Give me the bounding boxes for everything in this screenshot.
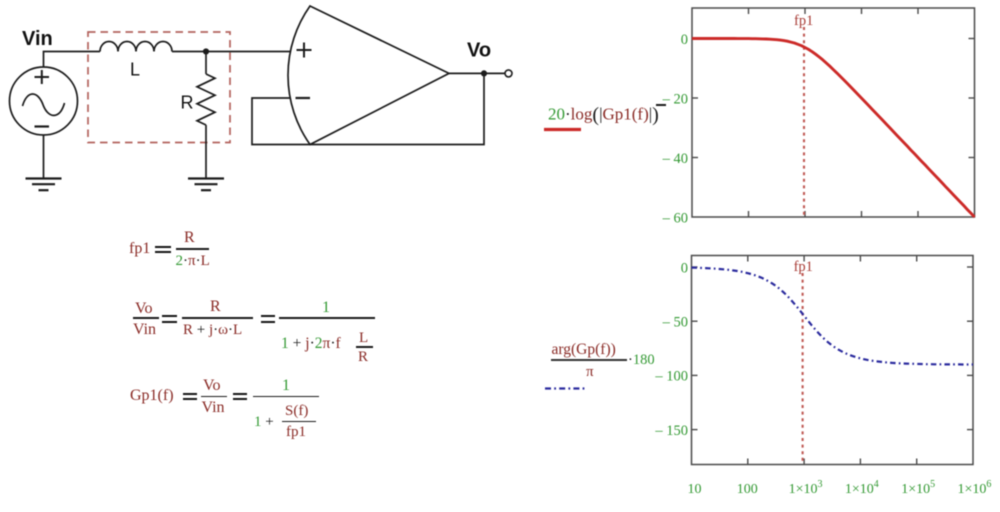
- svg-text:1×105: 1×105: [901, 479, 935, 497]
- svg-text:L: L: [130, 60, 140, 80]
- svg-text:1×104: 1×104: [845, 479, 879, 497]
- svg-text:0: 0: [681, 260, 688, 276]
- svg-text:10: 10: [688, 482, 702, 497]
- svg-text:– 150: – 150: [654, 423, 688, 439]
- svg-text:Vo: Vo: [467, 40, 491, 62]
- svg-text:0: 0: [681, 32, 688, 48]
- svg-text:100: 100: [737, 482, 758, 497]
- svg-text:fp1: fp1: [794, 259, 813, 275]
- svg-text:– 50: – 50: [662, 315, 688, 331]
- svg-text:fp1: fp1: [794, 13, 813, 29]
- svg-text:R: R: [181, 93, 194, 113]
- svg-text:– 20: – 20: [662, 91, 688, 107]
- svg-text:– 40: – 40: [662, 151, 688, 167]
- svg-text:– 60: – 60: [662, 210, 688, 226]
- svg-text:1×106: 1×106: [958, 479, 992, 497]
- svg-text:– 100: – 100: [654, 369, 688, 385]
- svg-text:Vin: Vin: [22, 28, 53, 50]
- svg-text:1×103: 1×103: [789, 479, 823, 497]
